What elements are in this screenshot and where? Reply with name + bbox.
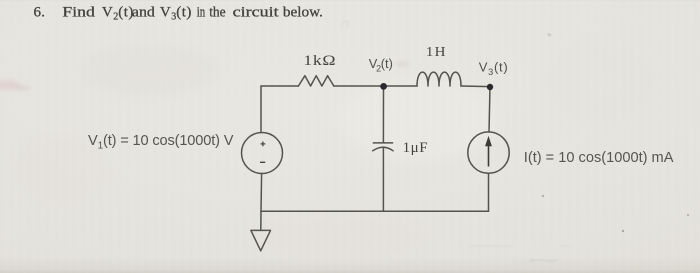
svg-text:I(t) = 10 cos(1000t) mA: I(t) = 10 cos(1000t) mA [524, 150, 674, 166]
faint pink smudge left edge [0, 80, 30, 91]
svg-text:6.: 6. [34, 4, 46, 20]
wire bottom junction to ground [260, 211, 262, 230]
ground symbol [251, 230, 271, 250]
faint dot bottom right [622, 230, 624, 232]
voltage source plus sign [261, 142, 266, 147]
resistor R 1kOhm [298, 76, 333, 86]
svg-text:V2(t): V2(t) [369, 56, 393, 73]
svg-text:1H: 1H [426, 44, 447, 59]
wire capacitor to bottom rail [382, 148, 384, 211]
svg-text:1kΩ: 1kΩ [303, 51, 336, 68]
wire top-left horizontal [261, 85, 298, 87]
faint smudge right of V2 label [395, 61, 409, 67]
node V2 junction dot [380, 83, 387, 90]
svg-text:V3(t): V3(t) [479, 60, 509, 77]
capacitor C 1uF top plate [373, 142, 392, 144]
wire voltage source to bottom rail [260, 174, 263, 212]
current source I circle [468, 132, 509, 173]
voltage source V1 circle [242, 133, 283, 174]
faint speck far right [687, 214, 689, 216]
inductor L 1H [417, 72, 461, 86]
wire node V2 to inductor [384, 85, 418, 87]
node V3 junction dot [487, 84, 493, 90]
faint mark upper right [548, 34, 552, 37]
svg-text:1μF: 1μF [403, 140, 429, 156]
wire current source to bottom rail [488, 173, 490, 211]
wire node V3 down to current source [489, 87, 490, 132]
faint scratch bottom center [468, 245, 570, 247]
wire resistor to node V2 [334, 85, 384, 87]
subtle paper mottling [10, 35, 655, 255]
faint speck mid right [542, 195, 544, 197]
faint pencil squiggle top middle [341, 21, 348, 28]
wire left vertical (top wire to voltage source) [260, 86, 262, 133]
wire inductor to node V3 [461, 85, 490, 88]
voltage source minus sign [260, 161, 265, 163]
title text [34, 4, 323, 22]
faint blue scribble bottom [529, 259, 557, 262]
wire node V2 down to capacitor [382, 86, 384, 142]
svg-text:V1(t) = 10 cos(1000t) V: V1(t) = 10 cos(1000t) V [88, 133, 234, 152]
capacitor C 1uF bottom curved plate [373, 147, 393, 151]
current source arrow [486, 137, 492, 167]
wire bottom rail [261, 210, 489, 212]
